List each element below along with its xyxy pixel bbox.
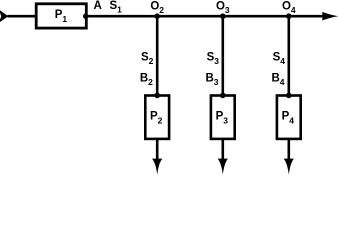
- junction dot at P1 output: [83, 13, 89, 19]
- block P3: [211, 96, 235, 139]
- wire: main bus from P1 to output arrow: [86, 15, 325, 18]
- node O4: [282, 0, 296, 19]
- down arrow from P3: [218, 159, 228, 175]
- wire: P2 output: [156, 139, 159, 161]
- junction dot at P3 input: [220, 93, 226, 99]
- wire: P4 output: [287, 139, 290, 161]
- wire: O4 down to P4: [287, 16, 290, 95]
- block P4: [277, 96, 301, 139]
- down arrow from P4: [284, 159, 294, 175]
- node O2: [150, 0, 164, 19]
- block P2: [145, 96, 169, 139]
- junction dot at P4 input: [286, 93, 292, 99]
- output arrow: [322, 12, 338, 21]
- wire: O3 down to P3: [222, 16, 225, 95]
- wire: O2 down to P2: [156, 16, 159, 95]
- svg-text:A: A: [94, 0, 102, 12]
- down arrow from P2: [152, 159, 162, 175]
- block P1: [36, 4, 86, 28]
- node O3: [216, 0, 230, 19]
- input arrow: [0, 10, 8, 23]
- junction dot at P2 input: [154, 93, 160, 99]
- wire: input to P1: [7, 15, 36, 18]
- wire: P3 output: [222, 139, 225, 161]
